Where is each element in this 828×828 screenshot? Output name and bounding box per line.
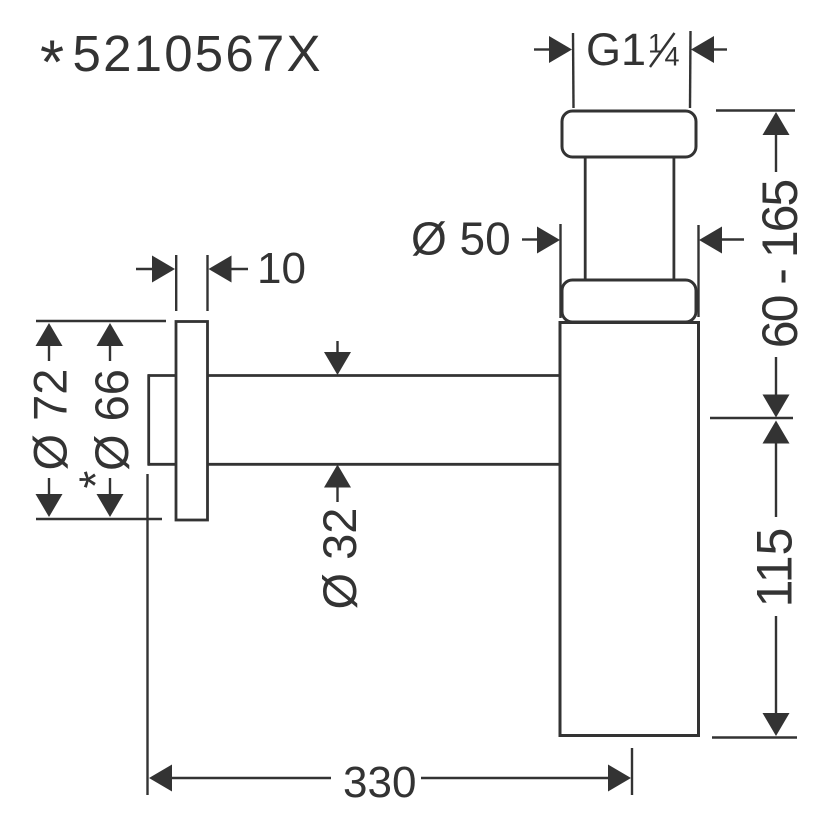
siphon body cup (560, 323, 699, 736)
svg-text:Ø 50: Ø 50 (411, 213, 511, 265)
svg-text:330: 330 (343, 758, 416, 807)
svg-text:4: 4 (665, 42, 680, 72)
svg-text:5210567X: 5210567X (73, 25, 323, 82)
dimension diameter 66 (97, 323, 124, 346)
separator tick between 60-165 and 115 (710, 417, 793, 419)
dimension diameter 32 (336, 341, 338, 353)
siphon top nut (562, 111, 696, 157)
dimension 330 (148, 474, 633, 795)
extension line top of nut (right) (716, 109, 795, 111)
wall pipe (horizontal tailpipe) (148, 374, 561, 465)
svg-text:G1: G1 (586, 24, 646, 75)
svg-text:*: * (40, 29, 64, 98)
extension line bottom of body (right) (712, 736, 797, 738)
svg-text:*: * (70, 471, 122, 489)
svg-text:Ø 72: Ø 72 (24, 369, 77, 471)
dimension 10 (flange thickness) (136, 255, 248, 311)
dimension G1 1/4 (534, 31, 727, 108)
svg-text:60 - 165: 60 - 165 (752, 181, 808, 349)
svg-text:10: 10 (257, 244, 306, 293)
siphon lower nut (562, 280, 696, 322)
dimension 60 - 165 (763, 112, 790, 135)
svg-text:Ø 32: Ø 32 (313, 508, 366, 610)
svg-text:Ø 66: Ø 66 (85, 369, 138, 471)
dimension 115 (763, 421, 790, 444)
svg-text:115: 115 (747, 528, 803, 608)
siphon riser tube (585, 157, 674, 281)
extension lines flange diameters (36, 320, 166, 322)
wall flange escutcheon (176, 322, 208, 521)
dimension diameter 72 (36, 323, 63, 346)
